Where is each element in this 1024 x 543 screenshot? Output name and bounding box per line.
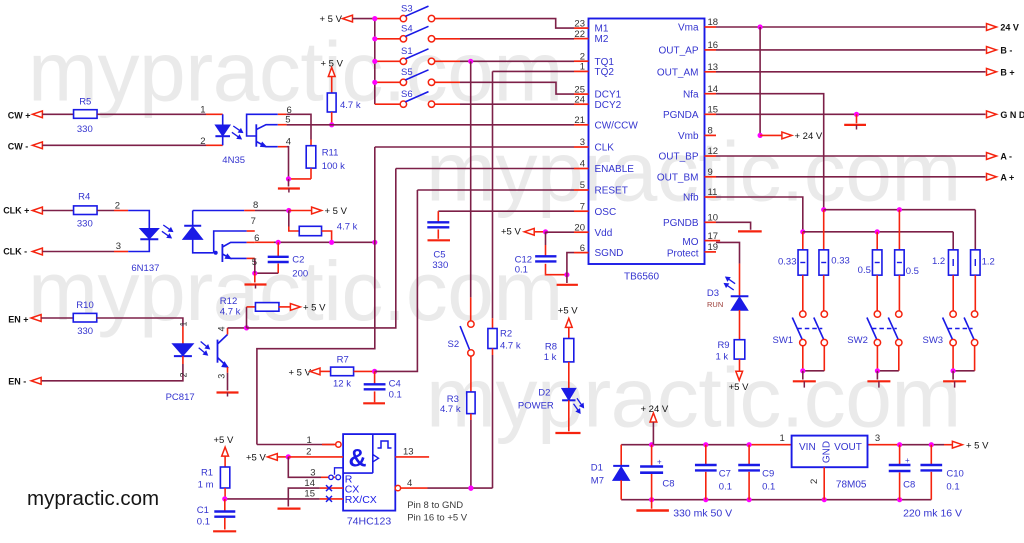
svg-text:B -: B - <box>1000 45 1012 55</box>
svg-text:EN +: EN + <box>8 314 28 324</box>
svg-text:1.2: 1.2 <box>932 256 945 267</box>
svg-text:SW1: SW1 <box>773 335 794 346</box>
svg-text:7: 7 <box>580 201 585 212</box>
svg-text:D1: D1 <box>591 463 603 474</box>
svg-text:+ 5 V: + 5 V <box>303 303 326 314</box>
svg-text:4.7 k: 4.7 k <box>500 340 521 351</box>
svg-text:SW2: SW2 <box>847 335 868 346</box>
svg-text:2: 2 <box>200 136 205 147</box>
svg-text:+ 5 V: + 5 V <box>966 440 989 451</box>
svg-text:0.33: 0.33 <box>778 257 797 268</box>
svg-text:Nfb: Nfb <box>683 193 699 204</box>
svg-text:1: 1 <box>179 321 189 326</box>
svg-text:C9: C9 <box>762 468 774 479</box>
svg-text:TB6560: TB6560 <box>624 272 659 283</box>
svg-text:G N D: G N D <box>1000 110 1024 120</box>
svg-text:OSC: OSC <box>595 207 617 218</box>
svg-text:24 V: 24 V <box>1000 23 1019 33</box>
svg-text:22: 22 <box>574 29 585 40</box>
svg-text:+ 5 V: + 5 V <box>325 206 348 217</box>
svg-text:12 k: 12 k <box>333 379 351 390</box>
svg-text:4: 4 <box>580 159 585 170</box>
svg-text:R8: R8 <box>545 342 557 353</box>
svg-text:2: 2 <box>115 200 120 211</box>
svg-text:2: 2 <box>178 372 188 377</box>
svg-text:OUT_BM: OUT_BM <box>657 172 699 183</box>
svg-text:R1: R1 <box>201 467 213 478</box>
svg-text:POWER: POWER <box>518 401 554 412</box>
svg-text:2: 2 <box>809 479 820 484</box>
svg-text:5: 5 <box>252 257 257 268</box>
svg-text:330: 330 <box>77 124 93 135</box>
svg-text:3: 3 <box>580 137 585 148</box>
svg-text:ENABLE: ENABLE <box>595 164 635 175</box>
svg-text:R2: R2 <box>500 329 512 340</box>
svg-text:0.1: 0.1 <box>719 481 732 492</box>
svg-text:330: 330 <box>432 260 448 271</box>
svg-text:D3: D3 <box>707 288 719 299</box>
svg-text:1: 1 <box>200 105 205 116</box>
svg-text:1 k: 1 k <box>716 351 729 362</box>
svg-text:+5 V: +5 V <box>214 435 234 446</box>
svg-text:8: 8 <box>708 126 713 137</box>
svg-text:74HC123: 74HC123 <box>347 516 392 528</box>
svg-text:+ 24 V: + 24 V <box>795 131 823 142</box>
svg-text:SW3: SW3 <box>923 335 944 346</box>
svg-text:A +: A + <box>1000 172 1014 182</box>
svg-text:A -: A - <box>1000 152 1012 162</box>
svg-text:0.5: 0.5 <box>858 265 871 276</box>
svg-text:DCY2: DCY2 <box>595 100 622 111</box>
svg-text:VIN: VIN <box>799 442 816 453</box>
svg-text:M7: M7 <box>591 476 604 487</box>
svg-text:3: 3 <box>116 241 121 252</box>
svg-text:0.1: 0.1 <box>389 389 402 400</box>
svg-text:VOUT: VOUT <box>834 442 862 453</box>
svg-text:OUT_AM: OUT_AM <box>657 67 699 78</box>
svg-text:1 m: 1 m <box>198 480 214 491</box>
svg-text:C7: C7 <box>719 468 731 479</box>
svg-text:4: 4 <box>286 136 291 147</box>
svg-text:2: 2 <box>306 447 311 458</box>
svg-text:6: 6 <box>580 243 585 254</box>
svg-text:200: 200 <box>292 268 308 279</box>
svg-text:M2: M2 <box>595 34 609 45</box>
svg-text:330 mk 50 V: 330 mk 50 V <box>673 508 732 520</box>
svg-text:330: 330 <box>77 326 93 337</box>
svg-text:R7: R7 <box>337 354 349 365</box>
svg-text:+ 24 V: + 24 V <box>641 404 669 415</box>
svg-text:C8: C8 <box>662 479 674 490</box>
svg-text:S6: S6 <box>401 89 413 100</box>
svg-text:Pin 8 to GND: Pin 8 to GND <box>407 500 463 511</box>
svg-text:OUT_AP: OUT_AP <box>658 46 698 57</box>
svg-text:4.7 k: 4.7 k <box>220 307 241 318</box>
svg-text:Vdd: Vdd <box>595 228 613 239</box>
svg-text:+5 V: +5 V <box>501 227 521 238</box>
svg-text:C2: C2 <box>292 255 304 266</box>
svg-text:mypractic.com: mypractic.com <box>426 351 961 445</box>
svg-text:0.1: 0.1 <box>762 481 775 492</box>
svg-text:S2: S2 <box>448 339 460 350</box>
svg-text:1: 1 <box>780 433 785 444</box>
svg-text:S5: S5 <box>401 67 413 78</box>
svg-text:1: 1 <box>580 62 585 73</box>
svg-text:C5: C5 <box>433 249 445 260</box>
svg-text:R9: R9 <box>717 340 729 351</box>
svg-text:20: 20 <box>574 222 585 233</box>
svg-text:78M05: 78M05 <box>836 480 867 491</box>
svg-text:Protect: Protect <box>667 248 699 259</box>
svg-text:RESET: RESET <box>595 186 628 197</box>
svg-text:B +: B + <box>1000 67 1014 77</box>
svg-text:mypractic.com: mypractic.com <box>27 487 159 510</box>
svg-text:R11: R11 <box>322 147 339 158</box>
svg-text:8: 8 <box>253 200 258 211</box>
svg-text:Nfa: Nfa <box>683 89 699 100</box>
svg-text:PGNDB: PGNDB <box>663 218 699 229</box>
svg-text:330: 330 <box>77 218 93 229</box>
svg-text:+: + <box>905 456 910 465</box>
svg-text:1: 1 <box>307 435 312 446</box>
svg-text:TQ2: TQ2 <box>595 67 615 78</box>
svg-text:RUN: RUN <box>707 300 723 309</box>
svg-text:+5 V: +5 V <box>729 382 749 393</box>
svg-text:EN -: EN - <box>8 376 26 386</box>
svg-text:3: 3 <box>875 433 880 444</box>
svg-text:C8: C8 <box>903 479 915 490</box>
svg-text:4N35: 4N35 <box>222 155 245 166</box>
svg-text:23: 23 <box>574 18 585 29</box>
svg-text:CW -: CW - <box>8 141 29 151</box>
svg-text:21: 21 <box>574 115 585 126</box>
svg-text:100 k: 100 k <box>322 161 345 172</box>
svg-text:CLK: CLK <box>595 143 615 154</box>
svg-text:C4: C4 <box>389 379 401 390</box>
svg-text:5: 5 <box>285 114 290 125</box>
svg-text:M1: M1 <box>595 24 609 35</box>
svg-text:CW +: CW + <box>8 110 31 120</box>
svg-text:Vmb: Vmb <box>678 131 699 142</box>
svg-text:+5 V: +5 V <box>246 452 266 463</box>
svg-text:15: 15 <box>304 489 315 500</box>
svg-text:CLK -: CLK - <box>3 246 27 256</box>
svg-text:CW/CCW: CW/CCW <box>595 120 639 131</box>
svg-text:OUT_BP: OUT_BP <box>658 152 698 163</box>
svg-text:+: + <box>657 458 662 467</box>
svg-text:C1: C1 <box>197 505 209 516</box>
svg-text:R10: R10 <box>76 300 93 311</box>
svg-text:0.5: 0.5 <box>906 266 919 277</box>
svg-text:5: 5 <box>580 180 585 191</box>
svg-text:RX/CX: RX/CX <box>345 494 377 506</box>
svg-text:+5 V: +5 V <box>558 305 578 316</box>
svg-text:1.2: 1.2 <box>982 257 995 268</box>
svg-text:0.33: 0.33 <box>831 255 850 266</box>
svg-text:0.1: 0.1 <box>946 481 959 492</box>
svg-text:1 k: 1 k <box>544 352 557 363</box>
svg-text:3: 3 <box>216 374 226 379</box>
svg-text:4: 4 <box>217 326 227 331</box>
svg-text:4.7 k: 4.7 k <box>440 404 461 415</box>
svg-text:S4: S4 <box>401 24 413 35</box>
svg-text:S1: S1 <box>401 46 413 57</box>
svg-text:R4: R4 <box>78 192 90 203</box>
svg-text:PC817: PC817 <box>166 392 195 403</box>
svg-text:4: 4 <box>407 478 412 489</box>
svg-text:R12: R12 <box>220 296 237 307</box>
svg-text:0.1: 0.1 <box>515 265 528 276</box>
svg-text:4.7 k: 4.7 k <box>340 100 361 111</box>
svg-text:19: 19 <box>708 242 719 253</box>
svg-text:R5: R5 <box>79 97 91 108</box>
svg-text:D2: D2 <box>538 387 550 398</box>
svg-text:&: & <box>348 445 366 473</box>
svg-text:6N137: 6N137 <box>131 263 159 274</box>
svg-text:+ 5 V: + 5 V <box>289 367 312 378</box>
svg-text:11: 11 <box>708 187 718 198</box>
svg-text:C10: C10 <box>946 468 963 479</box>
svg-text:13: 13 <box>403 446 414 457</box>
svg-text:7: 7 <box>251 216 256 227</box>
svg-text:0.1: 0.1 <box>197 516 210 527</box>
svg-text:CLK +: CLK + <box>3 205 29 215</box>
svg-text:Pin 16 to +5 V: Pin 16 to +5 V <box>407 512 468 523</box>
svg-text:9: 9 <box>708 167 713 178</box>
svg-text:4.7 k: 4.7 k <box>337 222 358 233</box>
svg-text:PGNDA: PGNDA <box>663 110 699 121</box>
svg-text:3: 3 <box>310 467 315 478</box>
svg-text:S3: S3 <box>401 3 413 14</box>
svg-text:Vma: Vma <box>678 23 699 34</box>
svg-text:MO: MO <box>682 237 698 248</box>
svg-text:SGND: SGND <box>595 248 624 259</box>
svg-text:+ 5 V: + 5 V <box>320 14 343 25</box>
svg-text:24: 24 <box>574 94 585 105</box>
svg-text:220 mk 16 V: 220 mk 16 V <box>903 508 962 520</box>
svg-text:GND: GND <box>822 441 833 463</box>
